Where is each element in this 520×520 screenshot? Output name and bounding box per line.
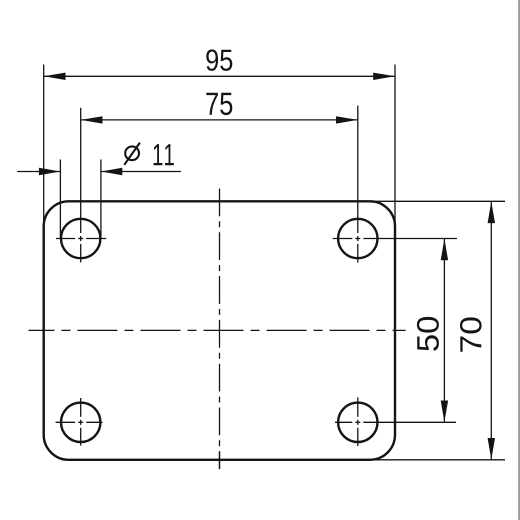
hole bottom-right [338, 403, 377, 442]
hole top-right [338, 219, 377, 258]
center mark hole bottom-right [357, 398, 359, 447]
hole bottom-left [61, 403, 100, 442]
vertical centerline [219, 189, 221, 470]
hole top-left [61, 219, 100, 258]
center mark hole bottom-left [56, 398, 103, 446]
dimension 95 [44, 49, 395, 230]
dimension dia 11 [17, 143, 181, 239]
center mark hole top-left [56, 238, 106, 240]
plate outline [44, 201, 395, 460]
dimension 75 [81, 93, 358, 263]
dimension 70 [369, 201, 505, 460]
drawing sheet edge line [518, 0, 520, 520]
horizontal centerline [29, 329, 406, 331]
dimension 50 [333, 239, 457, 423]
